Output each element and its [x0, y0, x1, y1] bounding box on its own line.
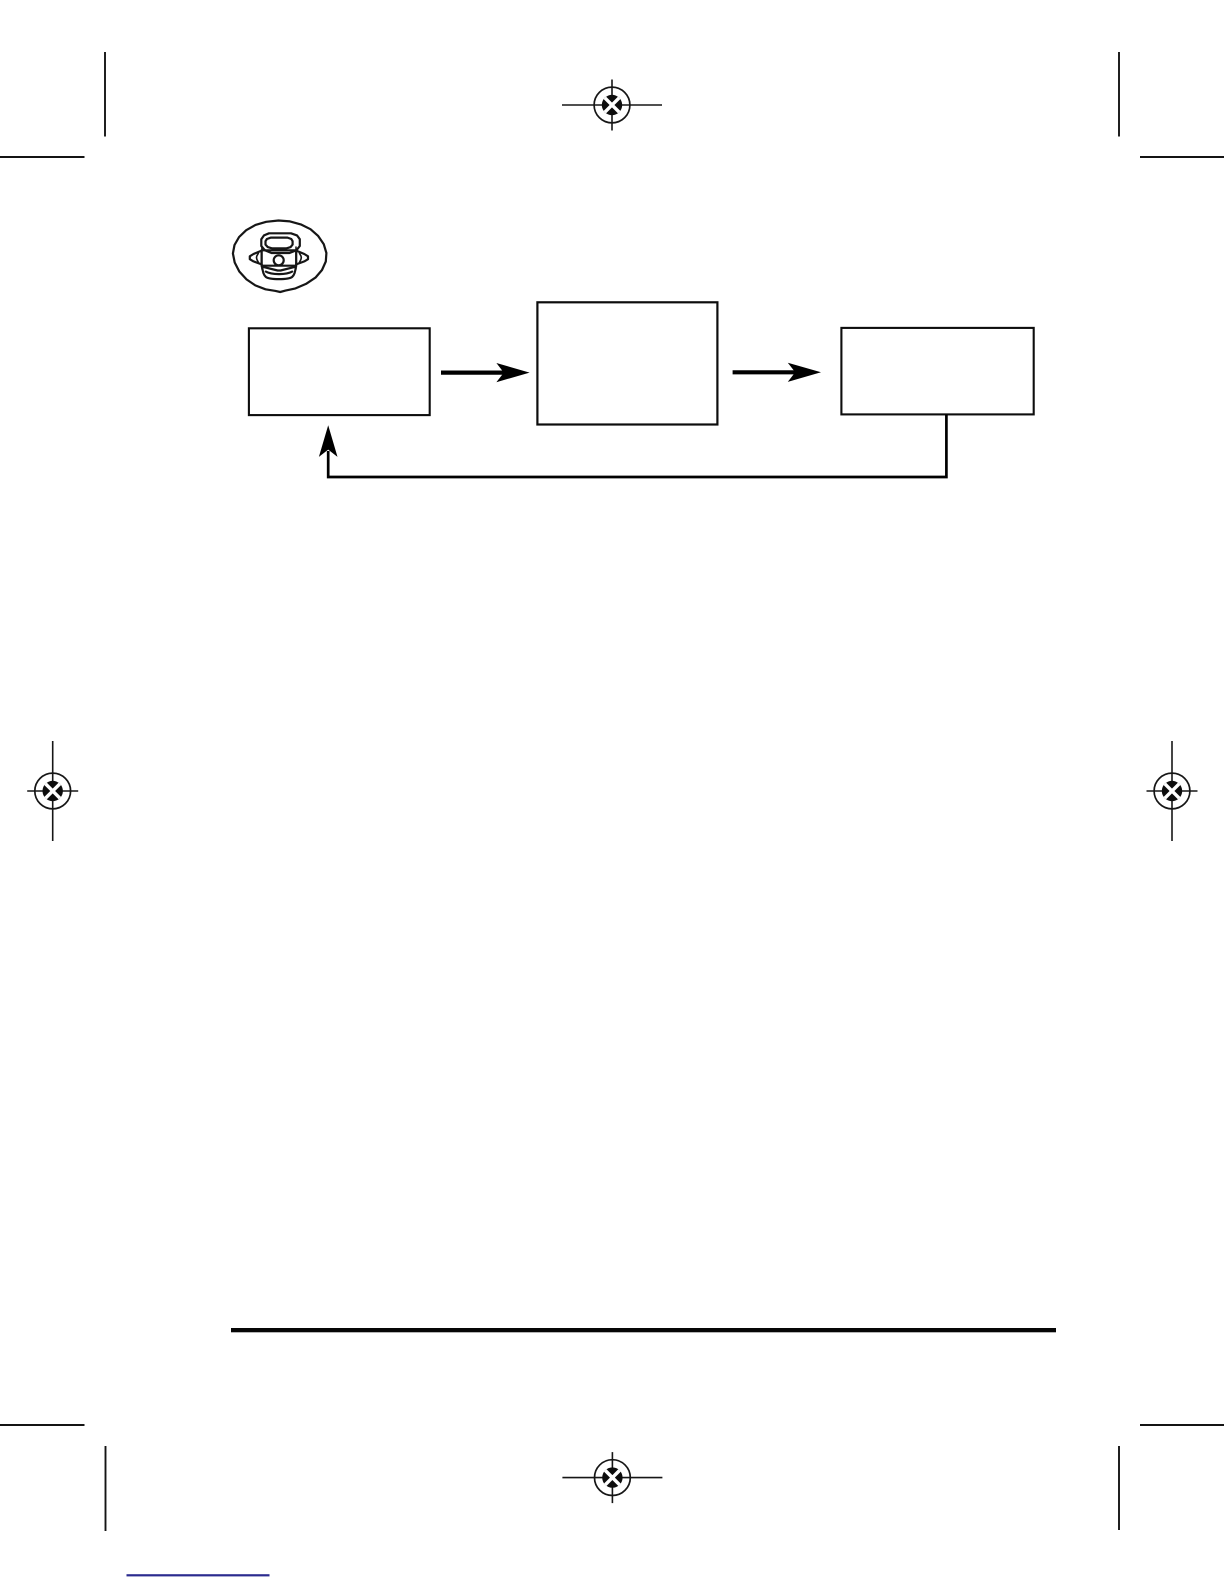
crop mark bottom-left horizontal [0, 1424, 85, 1426]
crop mark top-right vertical [1118, 52, 1120, 137]
crop mark bottom-right horizontal [1140, 1424, 1224, 1426]
arrow 2 (box2 to box3) [733, 363, 821, 382]
feedback wire (box3 bottom, down, left, up to box1) [328, 415, 946, 478]
arrow 1 (box1 to box2) [441, 363, 530, 382]
registration mark top center [562, 80, 662, 131]
box 1 (left, empty) [249, 328, 430, 415]
crop mark top-left horizontal [0, 156, 85, 158]
registration mark left middle [27, 741, 78, 841]
registration mark bottom center [562, 1452, 662, 1503]
horizontal rule [231, 1328, 1056, 1332]
blue underline bottom-left [127, 1574, 270, 1576]
crop mark bottom-left vertical [105, 1446, 107, 1531]
icon: oval line-art emblem [233, 221, 327, 293]
box 2 (middle, empty) [537, 302, 717, 424]
crop mark top-left vertical [104, 52, 106, 137]
feedback arrowhead (pointing up at box1) [319, 425, 338, 457]
crop mark bottom-right vertical [1118, 1446, 1120, 1530]
box 3 (right, empty) [841, 328, 1033, 415]
registration mark right middle [1147, 741, 1198, 841]
crop mark top-right horizontal [1140, 156, 1224, 158]
